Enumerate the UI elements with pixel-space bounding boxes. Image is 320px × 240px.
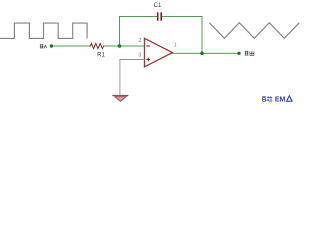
svg-text:R1: R1 — [97, 53, 105, 59]
logo 百芯EMA — [262, 96, 272, 101]
svg-text:2: 2 — [138, 38, 141, 44]
svg-text:1: 1 — [174, 42, 177, 48]
svg-text:3: 3 — [138, 53, 141, 59]
wire feedback up from junction — [119, 17, 121, 47]
node feedback junction on output — [200, 52, 204, 56]
ground symbol — [112, 95, 128, 97]
square wave input waveform — [0, 23, 87, 38]
op-amp plus sign — [146, 59, 150, 61]
wire pin 3 to ground horizontal — [120, 60, 145, 96]
wire junction to op-amp pin 2 — [120, 45, 145, 47]
net label 输出 — [245, 51, 254, 56]
capacitor C1 — [157, 12, 159, 20]
wire capacitor to feedback right — [162, 16, 202, 18]
wire input to resistor — [51, 45, 89, 47]
node output end dot — [237, 52, 240, 55]
triangle wave output waveform — [209, 23, 299, 39]
svg-text:C1: C1 — [154, 3, 162, 9]
net label 输入 — [40, 45, 47, 49]
node junction A (inverting input) — [118, 44, 122, 48]
resistor R1 — [89, 43, 104, 48]
wire feedback down to output — [201, 16, 203, 53]
wire op-amp output — [173, 52, 240, 54]
op-amp minus sign — [146, 45, 150, 47]
wire resistor to junction — [105, 45, 120, 47]
node input start dot — [50, 44, 53, 47]
op-amp U1 triangle — [145, 38, 173, 67]
svg-text:EM: EM — [275, 94, 286, 103]
wire feedback top left to capacitor — [119, 16, 157, 18]
